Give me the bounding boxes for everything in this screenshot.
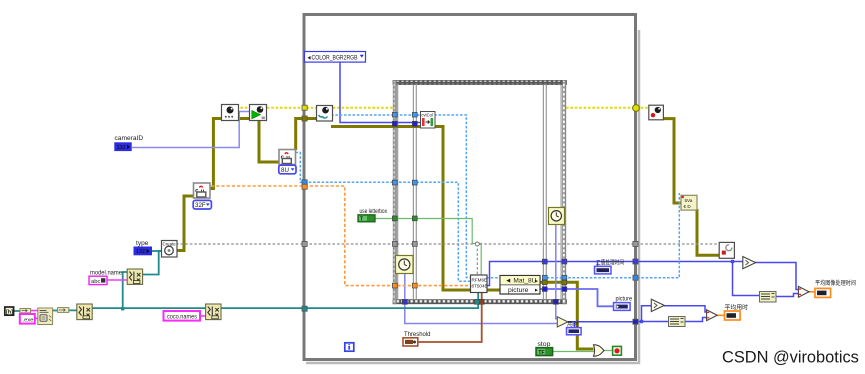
- tunnel navy right: [633, 319, 638, 324]
- svg-text:5Va: 5Va: [685, 198, 693, 203]
- create mat 32F node: [194, 183, 211, 198]
- wire gray dashed branch to detect: [476, 244, 478, 276]
- tunnel blue right: [633, 259, 638, 264]
- svg-text:€ D: € D: [684, 204, 692, 209]
- svg-text:.exe: .exe: [23, 318, 34, 324]
- TUNNELS on sequence structure borders: [392, 112, 566, 304]
- wire green stop to OR: [553, 351, 614, 352]
- svg-text:cameraID: cameraID: [115, 135, 144, 142]
- camera release node: [649, 105, 664, 120]
- svg-text:model.name: model.name: [90, 269, 122, 276]
- svg-text:TF: TF: [538, 350, 544, 356]
- svg-text:cvtCol: cvtCol: [421, 112, 433, 117]
- tunnel cyan pair right: [542, 275, 547, 280]
- wire blue elapsed output to border: [568, 322, 636, 328]
- svg-text:132: 132: [117, 145, 126, 151]
- wire green use letterbox: [375, 219, 482, 277]
- list folder node A: [77, 304, 92, 320]
- tunnel gray right: [633, 241, 638, 246]
- svg-text:8T504B: 8T504B: [472, 284, 488, 289]
- iteration terminal: [345, 343, 354, 351]
- tunnel navy pair cvt wire: [392, 121, 397, 126]
- wire magenta model.name: [107, 279, 127, 281]
- tunnel brown bottom: [480, 299, 485, 304]
- tunnel orange left: [302, 184, 307, 189]
- property node Mat8U / picture: [500, 276, 540, 295]
- tunnel orange pair: [392, 283, 397, 288]
- sequence separator bar 1: [413, 85, 416, 300]
- svg-text:平均图像处理时间: 平均图像处理时间: [815, 279, 856, 287]
- add-divide triangle 2: [798, 286, 809, 297]
- add-divide triangle 1: [707, 310, 718, 321]
- wait ms clock 2: [549, 208, 565, 225]
- constant coco.names: [164, 311, 201, 321]
- svg-text:CSDN @virobotics: CSDN @virobotics: [722, 349, 859, 367]
- create class node: [162, 241, 178, 258]
- control stop: [536, 341, 553, 356]
- tunnel cyan left: [302, 180, 307, 185]
- tunnel cyan pair top: [392, 112, 397, 117]
- wire gray dashed reference: [176, 243, 720, 245]
- camera open node N1: [222, 105, 239, 121]
- tunnel teal left: [302, 306, 307, 311]
- control Threshold: [403, 331, 431, 346]
- svg-text:RFM6E: RFM6E: [472, 278, 488, 283]
- svg-text:二值处理时间: 二值处理时间: [596, 259, 624, 267]
- flat sequence structure border right: [563, 80, 566, 303]
- tunnel yellow error left: [302, 105, 307, 110]
- wire orange outputs: [717, 292, 816, 316]
- cvtColor node: [421, 112, 436, 129]
- wire violet wait ms 1: [405, 272, 558, 324]
- svg-text:[h]: [h]: [6, 310, 13, 316]
- create mat 8U node: [279, 150, 296, 165]
- camera grab node N2: [250, 105, 267, 121]
- junction blue dot: [731, 260, 734, 263]
- wire violet picture row to picture indicator: [540, 289, 615, 306]
- svg-text:DBL: DBL: [818, 291, 827, 296]
- wire brown threshold: [418, 292, 482, 342]
- svg-text:DBL: DBL: [727, 313, 736, 318]
- quotient node 1: [669, 317, 686, 327]
- 8U dropdown: [279, 165, 296, 174]
- wire cyan dashed 8U node to detect: [296, 153, 472, 282]
- delete object node: [681, 195, 697, 210]
- tunnel blue pair right picture row: [542, 287, 547, 292]
- svg-text:132: 132: [136, 249, 145, 255]
- tunnel gray left: [302, 241, 307, 246]
- constant use letterbox: [358, 208, 388, 223]
- subtract triangle elapsed: [557, 317, 568, 327]
- strip path node: [20, 309, 31, 313]
- wire magenta exe chain: [31, 311, 38, 319]
- control type: [134, 240, 152, 255]
- G close node: [719, 242, 734, 258]
- OR gate: [594, 345, 605, 356]
- svg-text:132: 132: [599, 269, 605, 273]
- while loop border: [306, 30, 639, 363]
- svg-text:用时: 用时: [567, 320, 579, 328]
- indicator binary process time: [595, 259, 625, 274]
- wire olive property node to OR gate: [540, 282, 594, 349]
- wire blue detect output to indicator row: [487, 262, 636, 286]
- path-to-string node: [58, 308, 69, 313]
- svg-text:abc: abc: [91, 279, 100, 285]
- wire violet wait ms 2: [556, 223, 558, 319]
- wire olive create node to 32F node: [176, 196, 194, 251]
- camera read node N3: [317, 106, 333, 122]
- flat sequence structure border top: [393, 80, 567, 84]
- wire blue average-time cluster: [637, 306, 707, 322]
- wire teal path chain: [14, 272, 479, 311]
- svg-text:32F: 32F: [195, 202, 206, 209]
- wire olive node3 to cvtColor: [331, 125, 421, 128]
- indicator average elapsed: [725, 303, 749, 320]
- wire camera olive 32F to node1: [210, 119, 222, 189]
- 32F dropdown: [193, 200, 211, 209]
- svg-text:stop: stop: [538, 341, 551, 348]
- svg-text:平均用时: 平均用时: [725, 303, 749, 311]
- flat sequence structure border left: [393, 80, 396, 303]
- wire orange dashed 32F to detect: [211, 186, 471, 286]
- tunnel cyan right: [633, 275, 638, 280]
- flat sequence structure border bottom: [393, 300, 567, 304]
- quotient node 2: [760, 292, 777, 303]
- wire olive release camera to delete node: [663, 119, 681, 203]
- wire error dashed yellow: [236, 107, 649, 109]
- exe constant: [20, 314, 35, 324]
- tunnel blue pair right: [542, 259, 547, 264]
- TUNNELS on while loop left border: [302, 105, 638, 324]
- svg-text:picture: picture: [616, 296, 633, 303]
- wait ms clock 1: [396, 256, 414, 274]
- indicator average process time: [815, 279, 856, 298]
- svg-text:Threshold: Threshold: [404, 331, 431, 338]
- wire olive node2 down to 8U node: [259, 120, 279, 162]
- coco path build node B: [206, 304, 221, 320]
- conversion triangle time: [743, 257, 756, 269]
- tunnel olive left: [302, 116, 307, 121]
- yolov8 detect node: [471, 275, 488, 293]
- junction teal dot: [121, 307, 124, 310]
- wire cyan dashed node3 to detect: [331, 115, 471, 278]
- tunnel olive pair right: [542, 280, 547, 284]
- wire olive delete node to G node: [697, 209, 720, 255]
- control model.name: [89, 269, 122, 285]
- conversion triangle picture-count: [651, 299, 664, 311]
- wire cyan dashed across to release helper: [487, 193, 680, 278]
- wire olive cvtColor down to detect: [434, 127, 471, 291]
- tunnel teal bottom: [475, 299, 480, 304]
- junction gray circle: [475, 242, 479, 246]
- wire olive node1 to node2: [238, 117, 251, 120]
- tunnel gray pair: [392, 242, 397, 247]
- model path build node: [127, 269, 142, 284]
- sequence separator bar 2: [543, 85, 546, 300]
- svg-text:8U: 8U: [281, 167, 289, 174]
- svg-text:◄COLOR_BGR2RGB: ◄COLOR_BGR2RGB: [307, 55, 358, 61]
- svg-text:T: T: [360, 217, 363, 223]
- svg-text:use letterbox: use letterbox: [360, 208, 388, 215]
- svg-text:coco.names: coco.names: [167, 314, 198, 321]
- svg-text:◄ Mat_8U: ◄ Mat_8U: [505, 278, 537, 285]
- tunnel blue bottom 1: [553, 299, 558, 304]
- indicator elapsed: [567, 320, 582, 335]
- wire olive detect to property node: [486, 289, 500, 292]
- build path node: [38, 308, 53, 325]
- wire teal type to create: [152, 250, 162, 252]
- wire olive 8U node up through tunnel to node3: [296, 119, 318, 151]
- wire blue COLOR combo to cvtColor: [340, 62, 421, 123]
- loop condition terminal: [613, 346, 622, 355]
- tunnel cyan pair mid: [392, 180, 397, 185]
- tunnel green pair: [392, 216, 397, 221]
- wire cameraID blue: [132, 112, 251, 148]
- combo COLOR_BGR2RGB: [305, 52, 366, 63]
- tunnel yellow dot right: [633, 105, 640, 112]
- app dir node: [5, 307, 14, 316]
- wire blue outside loop to triangle U9: [637, 262, 799, 297]
- wire teal model node up to create: [142, 251, 162, 275]
- control cameraID: [115, 135, 144, 151]
- wire magenta coco.names: [200, 315, 206, 317]
- svg-text:►: ►: [534, 288, 539, 294]
- svg-text:type: type: [136, 240, 149, 247]
- indicator picture: [614, 296, 633, 311]
- tunnel violet bottom: [402, 299, 407, 304]
- svg-text:►: ►: [534, 279, 539, 285]
- svg-text:picture: picture: [508, 287, 529, 294]
